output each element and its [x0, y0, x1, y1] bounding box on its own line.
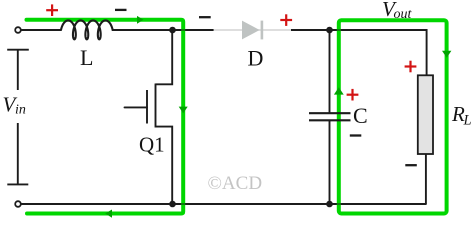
- svg-text:©ACD: ©ACD: [208, 173, 263, 194]
- transistor Q1 gate bar: [146, 90, 148, 124]
- svg-text:in: in: [15, 103, 26, 118]
- polarity - (inductor right): [115, 9, 127, 11]
- wire: diode cathode to output node and down to resistor RL: [291, 30, 427, 76]
- polarity - (load bottom): [405, 164, 417, 166]
- polarity + (diode cathode, red): [280, 14, 292, 26]
- transistor Q1 gate lead: [125, 106, 148, 108]
- node: diode/capacitor/output junction: [326, 27, 333, 34]
- polarity + (load top, red): [405, 61, 417, 73]
- capacitor C top lead: [329, 30, 331, 113]
- inductor L: [61, 20, 113, 39]
- diode D wire (gray, off-state): [214, 29, 292, 31]
- input terminal (top): [15, 27, 21, 33]
- input terminal (bottom): [15, 201, 21, 207]
- wire: inductor to diode anode: [112, 29, 214, 31]
- diode D: [242, 21, 262, 40]
- polarity - (diode anode): [199, 16, 211, 18]
- svg-text:out: out: [394, 7, 413, 22]
- current arrow right (top of loop 1): [137, 16, 144, 24]
- wire seen through highlight (bottom rail at loop 2): [337, 203, 342, 205]
- svg-text:C: C: [353, 103, 368, 128]
- node: inductor/diode/Q1 drain junction: [169, 27, 176, 34]
- svg-text:Q1: Q1: [139, 133, 165, 157]
- node: Q1 source junction (bottom rail): [169, 201, 176, 208]
- resistor RL bottom lead: [425, 154, 427, 204]
- current arrow down (through switch Q1): [179, 107, 188, 114]
- svg-text:L: L: [80, 45, 93, 70]
- Vin source indicator (bottom bar): [7, 183, 28, 185]
- current arrow down (load branch, loop 2): [442, 51, 451, 58]
- Vin source indicator (upper stem): [17, 50, 19, 90]
- wire seen through highlight (bottom rail at Q1 loop): [181, 203, 186, 205]
- current arrow left (bottom of loop 1): [105, 210, 112, 218]
- capacitor C bottom lead: [329, 121, 331, 204]
- polarity - (capacitor bottom): [350, 134, 362, 136]
- node: capacitor bottom junction (bottom rail): [326, 201, 333, 208]
- svg-text:D: D: [248, 45, 264, 70]
- current path loop 2: C-RL (green highlight): [339, 20, 447, 213]
- svg-text:L: L: [463, 113, 472, 129]
- transistor Q1 source lead: [156, 127, 173, 204]
- current arrow up (capacitor branch, loop 2): [334, 87, 344, 94]
- resistor RL: [418, 75, 433, 154]
- transistor Q1 channel bar: [155, 84, 157, 128]
- capacitor C plates: [309, 113, 351, 120]
- transistor Q1 drain lead: [156, 30, 173, 84]
- wire: bottom return rail: [21, 203, 426, 205]
- polarity + (inductor left, red): [46, 4, 58, 16]
- wire: top terminal to inductor: [21, 29, 61, 31]
- current path loop 1: Vin-L-Q1 (green highlight): [27, 20, 184, 214]
- wire seen through highlight (node A crossing): [181, 29, 186, 31]
- wire seen through highlight (output node crossing): [337, 29, 342, 31]
- Vin source indicator (top bar): [7, 49, 29, 51]
- Vin source indicator (lower stem): [17, 123, 19, 184]
- polarity + (capacitor top, red): [347, 89, 359, 101]
